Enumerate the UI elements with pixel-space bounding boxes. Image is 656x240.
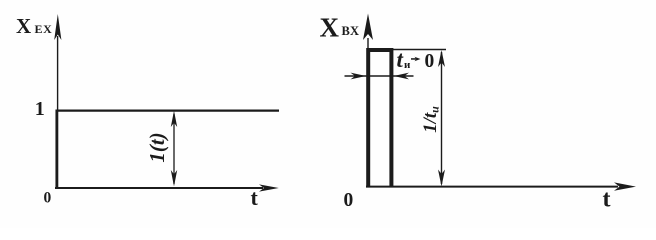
y axis right <box>367 38 369 187</box>
svg-text:1: 1 <box>35 98 45 120</box>
svg-text:ВХ: ВХ <box>342 24 360 38</box>
x axis arrowhead left <box>259 184 279 191</box>
svg-text:1(t): 1(t) <box>145 132 169 162</box>
svg-text:X: X <box>320 13 340 43</box>
top extension line <box>392 49 446 51</box>
width arrows <box>351 73 367 80</box>
pulse rectangle <box>368 50 391 187</box>
svg-text:и: и <box>404 59 411 71</box>
y axis arrowhead left <box>54 14 61 40</box>
width dimension line <box>345 75 414 77</box>
y axis arrowhead right <box>363 14 373 41</box>
x axis left <box>55 187 263 189</box>
x axis right <box>366 186 618 188</box>
svg-text:0: 0 <box>44 190 52 207</box>
svg-text:t: t <box>251 185 259 210</box>
svg-text:t: t <box>603 187 611 213</box>
svg-text:t: t <box>397 47 404 72</box>
1/tu dimension line <box>441 52 443 184</box>
1(t) arrowheads <box>171 111 177 127</box>
value label 1/t_u rotated <box>420 106 442 133</box>
small arrow in label tu->0 <box>415 57 421 62</box>
svg-text:0: 0 <box>425 51 435 72</box>
x axis arrowhead right <box>614 182 636 190</box>
step curve <box>57 111 279 188</box>
svg-text:X: X <box>16 14 31 38</box>
y axis left <box>57 36 59 188</box>
1(t) dimension line <box>173 114 175 184</box>
svg-text:ЕХ: ЕХ <box>35 22 53 36</box>
1/tu arrowheads <box>438 50 445 67</box>
svg-text:0: 0 <box>344 190 354 211</box>
